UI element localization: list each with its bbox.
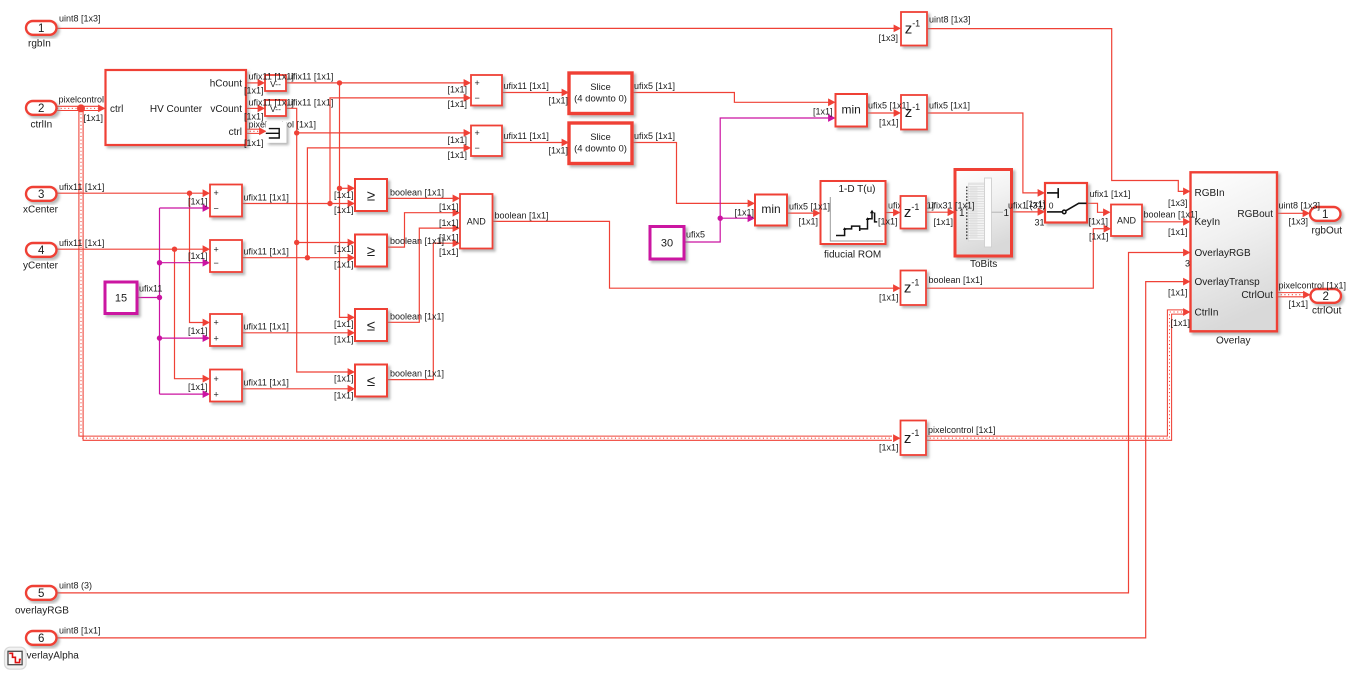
- block Sum1: [210, 185, 242, 217]
- wire hCount to V1: [246, 79, 265, 87]
- svg-text:[1x1]: [1x1]: [244, 138, 264, 148]
- svg-text:[1x1]: [1x1]: [549, 96, 569, 106]
- wire xCenter to Sum1: [57, 189, 211, 197]
- block min2: [755, 195, 787, 226]
- svg-text:[1x1]: [1x1]: [735, 208, 755, 218]
- svg-text:5: 5: [38, 588, 44, 600]
- caption Overlay: [1216, 336, 1250, 347]
- block Sum4: [210, 370, 242, 402]
- svg-text:[1x1]: [1x1]: [1289, 299, 1309, 309]
- svg-text:HV Counter: HV Counter: [150, 104, 203, 115]
- svg-text:[1x1]: [1x1]: [334, 390, 354, 400]
- input port 2 ctrlIn: [26, 101, 57, 115]
- svg-text:−: −: [475, 93, 480, 103]
- block convert V1: [265, 75, 286, 91]
- wire min1 out to z2: [867, 109, 902, 117]
- svg-text:+: +: [214, 318, 219, 328]
- wire overlayRGB to Overlay: [57, 249, 1191, 593]
- svg-text:uint8 [1x3]: uint8 [1x3]: [59, 14, 101, 24]
- svg-text:boolean [1x1]: boolean [1x1]: [929, 275, 983, 285]
- svg-text:≥: ≥: [367, 188, 375, 205]
- svg-text:(4 downto 0): (4 downto 0): [574, 144, 627, 155]
- wire Slice1 out to min1: [632, 93, 836, 107]
- svg-text:[1x1]: [1x1]: [879, 118, 899, 128]
- input port 3 xCenter: [26, 187, 57, 201]
- block delay z3: [901, 196, 927, 229]
- block compare GE1: [355, 179, 387, 211]
- svg-text:0: 0: [1049, 201, 1054, 211]
- wire constant30 net: [684, 114, 836, 242]
- svg-text:Overlay: Overlay: [1216, 336, 1250, 347]
- block HV Counter: [106, 70, 247, 145]
- svg-text:boolean [1x1]: boolean [1x1]: [390, 236, 444, 246]
- svg-text:ufix11 [1x1]: ufix11 [1x1]: [59, 238, 104, 248]
- wire Sum2 riser to SumB: [307, 144, 471, 258]
- block convert V2: [265, 100, 286, 116]
- wire Sum4 out to LE2: [242, 385, 355, 393]
- svg-text:pixelcontrol: pixelcontrol: [59, 95, 105, 105]
- svg-text:KeyIn: KeyIn: [1195, 217, 1221, 228]
- label ufix31 under z3: [888, 201, 934, 211]
- wire z4 out to AND2: [926, 225, 1111, 288]
- svg-text:ctrl: ctrl: [229, 127, 242, 138]
- svg-text:[1x3]: [1x3]: [1289, 217, 1309, 227]
- svg-text:≤: ≤: [367, 318, 375, 335]
- caption overlayAlpha: [21, 651, 79, 662]
- wire min2 out to ROM: [787, 209, 821, 217]
- svg-text:[1x1]: [1x1]: [188, 197, 208, 207]
- label pixelcontrol under terminator: [249, 120, 317, 130]
- block fiducial ROM: [821, 181, 886, 244]
- svg-text:[1x1]: [1x1]: [448, 84, 468, 94]
- input port 1 rgbIn: [26, 21, 57, 35]
- wire SumA out to Slice1: [502, 89, 569, 97]
- svg-text:31: 31: [1035, 218, 1045, 228]
- svg-text:1: 1: [1322, 209, 1328, 221]
- svg-text:OverlayTransp: OverlayTransp: [1195, 277, 1261, 288]
- svg-text:+: +: [214, 374, 219, 384]
- block Slice2: [569, 123, 632, 164]
- wire V2 out riser: [286, 108, 471, 376]
- wire ToBits out to switch: [1012, 208, 1046, 216]
- wire Sum3 out to LE1: [242, 329, 355, 337]
- input port 4 yCenter: [26, 243, 57, 257]
- svg-text:≤: ≤: [367, 373, 375, 390]
- block constant 30: [650, 227, 684, 260]
- svg-text:[1x1]: [1x1]: [1089, 217, 1109, 227]
- block Sum2: [210, 240, 242, 272]
- wire pixelcontrol ctrlIn to HVCounter: [57, 104, 106, 112]
- svg-text:6: 6: [38, 633, 44, 645]
- caption ToBits: [970, 259, 997, 270]
- block compare GE2: [355, 235, 387, 267]
- block delay z5: [901, 421, 927, 456]
- caption overlayRGB: [15, 606, 69, 617]
- svg-text:OverlayRGB: OverlayRGB: [1195, 248, 1251, 259]
- svg-text:ufix5 [1x1]: ufix5 [1x1]: [929, 101, 970, 111]
- svg-text:[1x1]: [1x1]: [1089, 232, 1109, 242]
- svg-text:[1x1]: [1x1]: [334, 335, 354, 345]
- svg-text:boolean [1x1]: boolean [1x1]: [495, 211, 549, 221]
- svg-text:[1x1]: [1x1]: [448, 150, 468, 160]
- wire Sum1 riser to SumA: [330, 94, 471, 204]
- wire LE2 out to AND1: [387, 239, 460, 379]
- svg-text:uint8 [1x1]: uint8 [1x1]: [59, 626, 101, 636]
- svg-text:rgbIn: rgbIn: [28, 39, 51, 50]
- svg-text:1: 1: [38, 23, 44, 35]
- svg-text:ufix5 [1x1]: ufix5 [1x1]: [634, 131, 675, 141]
- wire SumB out to Slice2: [502, 139, 569, 147]
- wire z2 out to switch: [927, 113, 1045, 197]
- wire xCenter riser to Sum3: [190, 193, 211, 326]
- svg-text:CtrlIn: CtrlIn: [1195, 308, 1219, 319]
- svg-text:+: +: [475, 78, 480, 88]
- block Overlay subsystem: [1191, 172, 1278, 331]
- caption ctrlOut: [1312, 306, 1342, 317]
- wire GE2 out to AND1: [387, 209, 460, 247]
- svg-text:[1x1]: [1x1]: [439, 202, 459, 212]
- svg-text:[1x1]: [1x1]: [244, 112, 264, 122]
- wire Sum2 out to GE2: [242, 254, 355, 262]
- caption yCenter: [23, 261, 59, 272]
- svg-text:[1x1]: [1x1]: [188, 251, 208, 261]
- svg-text:boolean [1x1]: boolean [1x1]: [390, 369, 444, 379]
- input port 5 overlayRGB: [26, 586, 57, 600]
- svg-text:ctrlOut: ctrlOut: [1312, 306, 1342, 317]
- wire Overlay RGBout to rgbOut: [1277, 209, 1310, 217]
- wire V1 out to SumA: [286, 79, 471, 87]
- svg-text:ufix11: ufix11: [139, 284, 162, 294]
- svg-text:[1x1]: [1x1]: [334, 259, 354, 269]
- svg-text:[1x1]: [1x1]: [334, 374, 354, 384]
- svg-text:[1x1]: [1x1]: [1026, 199, 1046, 209]
- wire z3 out to ToBits: [926, 208, 955, 216]
- svg-text:ufix5 [1x1]: ufix5 [1x1]: [868, 101, 909, 111]
- svg-text:fiducial ROM: fiducial ROM: [824, 250, 881, 261]
- wire pixelcontrol down-left run: [79, 110, 901, 442]
- wire constant15 net: [137, 204, 210, 398]
- svg-text:[1x1]: [1x1]: [448, 99, 468, 109]
- block delay z1: [901, 12, 927, 46]
- svg-text:pixelcontrol [1x1]: pixelcontrol [1x1]: [1279, 281, 1347, 291]
- svg-text:[1x1]: [1x1]: [799, 217, 819, 227]
- block delay z2: [901, 95, 927, 130]
- caption rgbOut: [1312, 226, 1343, 237]
- block AND1: [460, 194, 493, 249]
- svg-text:1-D T(u): 1-D T(u): [838, 184, 875, 195]
- svg-text:[1x1]: [1x1]: [813, 107, 833, 117]
- block constant 15: [105, 282, 137, 314]
- svg-text:ufix1 [1x1]: ufix1 [1x1]: [1090, 189, 1131, 199]
- svg-text:[1x1]: [1x1]: [549, 146, 569, 156]
- caption xCenter: [23, 205, 59, 216]
- wire AND1 out to z4: [493, 221, 901, 292]
- svg-text:boolean [1x1]: boolean [1x1]: [1144, 210, 1198, 220]
- svg-text:[1x1]: [1x1]: [879, 293, 899, 303]
- svg-text:ufix11 [1x1]: ufix11 [1x1]: [244, 378, 289, 388]
- svg-text:ctrl: ctrl: [110, 104, 123, 115]
- svg-text:[1x1]: [1x1]: [439, 247, 459, 257]
- svg-text:[1x1]: [1x1]: [334, 319, 354, 329]
- svg-text:[1x1]: [1x1]: [244, 86, 264, 96]
- svg-text:[1x1]: [1x1]: [334, 190, 354, 200]
- wire ROM out to z3: [886, 209, 901, 217]
- wire pixelcontrol Overlay CtrlOut to ctrlOut: [1277, 291, 1311, 299]
- svg-text:+: +: [214, 389, 219, 399]
- svg-text:RGBout: RGBout: [1237, 209, 1273, 220]
- svg-text:[1x3]: [1x3]: [879, 33, 899, 43]
- svg-text:ToBits: ToBits: [970, 259, 997, 270]
- block ToBits: [955, 170, 1012, 257]
- svg-text:30: 30: [661, 238, 673, 250]
- svg-text:−: −: [214, 203, 219, 213]
- svg-text:Slice: Slice: [590, 132, 611, 143]
- svg-text:ufix11 [1x1]: ufix11 [1x1]: [59, 182, 104, 192]
- svg-text:ufix5 [1x1]: ufix5 [1x1]: [634, 81, 675, 91]
- svg-text:[1x1]: [1x1]: [188, 382, 208, 392]
- svg-text:2: 2: [1323, 291, 1329, 303]
- svg-text:pixelcontrol [1x1]: pixelcontrol [1x1]: [928, 425, 996, 435]
- svg-text:(4 downto 0): (4 downto 0): [574, 94, 627, 105]
- model badge icon: [5, 647, 27, 669]
- caption fiducial ROM: [824, 250, 881, 261]
- svg-text:+: +: [475, 128, 480, 138]
- svg-text:boolean [1x1]: boolean [1x1]: [390, 311, 444, 321]
- svg-text:+: +: [214, 188, 219, 198]
- caption ctrlIn: [31, 119, 53, 130]
- wire rgbIn to z1: [57, 25, 902, 33]
- block Sum3: [210, 314, 242, 346]
- wire z1 out to Overlay RGBIn: [927, 29, 1191, 196]
- svg-text:[1x1]: [1x1]: [1171, 318, 1191, 328]
- svg-text:ufix11 [1x1]: ufix11 [1x1]: [288, 98, 333, 108]
- svg-text:[1x1]: [1x1]: [448, 135, 468, 145]
- terminator bracket: [266, 122, 287, 143]
- wire GE1 out to AND1: [387, 195, 460, 203]
- svg-text:ufix5 [1x1]: ufix5 [1x1]: [789, 202, 830, 212]
- wire Sum1 out to GE1: [242, 200, 355, 208]
- svg-text:ctrlIn: ctrlIn: [31, 119, 53, 130]
- block index-vector switch: [1045, 183, 1087, 223]
- svg-text:overlayAlpha: overlayAlpha: [21, 651, 79, 662]
- block AND2: [1111, 205, 1142, 237]
- svg-text:[1x1]: [1x1]: [934, 217, 954, 227]
- output port 1 rgbOut: [1310, 207, 1341, 221]
- block min1: [836, 94, 868, 127]
- block compare LE2: [355, 365, 387, 397]
- svg-text:ufix11 [1x1]: ufix11 [1x1]: [288, 72, 333, 82]
- svg-text:ufix5: ufix5: [686, 230, 705, 240]
- svg-text:ufix11 [1x1]: ufix11 [1x1]: [244, 322, 289, 332]
- svg-text:boolean [1x1]: boolean [1x1]: [390, 188, 444, 198]
- svg-text:vCount: vCount: [210, 104, 242, 115]
- svg-text:RGBIn: RGBIn: [1195, 188, 1225, 199]
- svg-text:15: 15: [115, 293, 127, 305]
- svg-text:≥: ≥: [367, 243, 375, 260]
- svg-text:[1x1]: [1x1]: [879, 443, 899, 453]
- svg-text:[1x1]: [1x1]: [334, 205, 354, 215]
- svg-text:ufix11 [1x1]: ufix11 [1x1]: [244, 247, 289, 257]
- wire switch out to AND2: [1087, 203, 1111, 216]
- svg-text:ufix31 [1x1]: ufix31 [1x1]: [929, 201, 975, 211]
- svg-text:uint8 (3): uint8 (3): [59, 581, 92, 591]
- block compare LE1: [355, 309, 387, 341]
- svg-text:4: 4: [38, 245, 45, 257]
- wire vCount to V2: [246, 105, 265, 113]
- svg-text:[1x3]: [1x3]: [1168, 198, 1188, 208]
- svg-text:Slice: Slice: [590, 82, 611, 93]
- wire AND2 out to Overlay KeyIn: [1142, 218, 1191, 226]
- svg-text:min: min: [842, 102, 861, 116]
- caption rgbIn: [28, 39, 51, 50]
- wire yCenter riser to Sum4: [175, 249, 211, 382]
- svg-text:3: 3: [1185, 258, 1190, 268]
- svg-text:AND: AND: [467, 216, 487, 226]
- svg-text:[1x1]: [1x1]: [334, 244, 354, 254]
- svg-text:hCount: hCount: [210, 79, 242, 90]
- output port 2 ctrlOut: [1311, 289, 1342, 303]
- svg-text:−: −: [475, 143, 480, 153]
- wire pixelcontrol HV ctrl out: [246, 127, 267, 135]
- svg-text:+: +: [214, 333, 219, 343]
- svg-text:[1x1]: [1x1]: [1168, 288, 1188, 298]
- block SumB: [471, 126, 502, 157]
- svg-text:[1x1]: [1x1]: [878, 217, 898, 227]
- svg-text:ufix11 [1x1]: ufix11 [1x1]: [244, 193, 289, 203]
- svg-text:ufix11 [1x1]: ufix11 [1x1]: [504, 131, 549, 141]
- svg-text:rgbOut: rgbOut: [1312, 226, 1343, 237]
- svg-text:xCenter: xCenter: [23, 205, 59, 216]
- svg-text:[1x1]: [1x1]: [439, 218, 459, 228]
- svg-text:+: +: [214, 244, 219, 254]
- wire yCenter to Sum2: [57, 245, 211, 253]
- svg-text:overlayRGB: overlayRGB: [15, 606, 69, 617]
- svg-text:[1x1]: [1x1]: [1168, 227, 1188, 237]
- svg-text:[1x1]: [1x1]: [84, 113, 104, 123]
- wire hCount riser: [337, 83, 355, 321]
- svg-text:2: 2: [38, 103, 44, 115]
- block SumA: [471, 75, 502, 106]
- wire overlayAlpha to Overlay: [57, 278, 1191, 638]
- svg-text:−: −: [214, 258, 219, 268]
- block delay z4: [901, 271, 927, 306]
- svg-text:3: 3: [38, 189, 44, 201]
- svg-text:[1x1]: [1x1]: [439, 233, 459, 243]
- svg-text:CtrlOut: CtrlOut: [1241, 290, 1273, 301]
- wire LE1 out to AND1: [387, 224, 460, 322]
- svg-text:uint8 [1x3]: uint8 [1x3]: [1279, 201, 1321, 211]
- wire pixelcontrol z5 to Overlay CtrlIn: [926, 308, 1191, 440]
- svg-text:[1x1]: [1x1]: [188, 326, 208, 336]
- svg-text:min: min: [761, 202, 780, 216]
- input port 6 overlayAlpha: [26, 631, 57, 645]
- svg-text:ufix11 [1x1]: ufix11 [1x1]: [504, 81, 549, 91]
- svg-text:AND: AND: [1117, 215, 1137, 225]
- block Slice1: [569, 73, 632, 114]
- svg-text:uint8 [1x3]: uint8 [1x3]: [929, 15, 971, 25]
- svg-text:yCenter: yCenter: [23, 261, 59, 272]
- wire Slice2 out to min2: [632, 143, 755, 208]
